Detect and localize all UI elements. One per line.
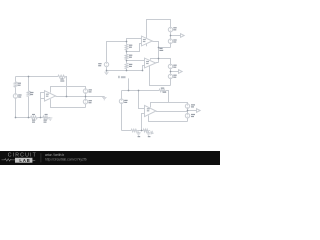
voltage source V2 <box>168 39 172 43</box>
node stack1 mid <box>170 35 172 37</box>
label R9b <box>163 92 167 93</box>
label V4 <box>173 65 176 68</box>
voltage source V10 <box>185 104 189 108</box>
node railC feed <box>138 90 140 92</box>
resistor R10 <box>131 129 137 132</box>
op-amp OA4 <box>145 105 157 116</box>
voltage source V11 <box>185 114 189 118</box>
node railB left <box>15 117 17 119</box>
ground flag (end of rail) <box>48 118 52 121</box>
wire: OA1 output down out node <box>152 42 158 63</box>
label V8 <box>89 100 92 103</box>
node stack2 mid <box>170 71 172 73</box>
ground <box>104 71 108 75</box>
label R9a <box>161 88 164 89</box>
net flag 1 stub <box>128 78 130 90</box>
wire: OA4 inverting feed <box>139 91 145 109</box>
svg-text:artur / keith b: artur / keith b <box>45 153 64 157</box>
label V5 <box>173 75 176 78</box>
wire: V11 bottom to OA4 V- pin <box>149 115 188 121</box>
label R2 <box>129 55 132 58</box>
resistor R7 <box>31 116 38 119</box>
label R8 <box>44 120 47 123</box>
resistor R8 <box>43 116 48 119</box>
wire: tap2 to OA2 inverting input <box>127 60 145 62</box>
node out rail join <box>158 58 160 60</box>
resistor R11 <box>143 129 148 132</box>
net flag arrow (rail end, slanted) <box>149 131 154 134</box>
node tap1 <box>126 51 128 53</box>
wire: feedback drop to output node <box>65 77 66 97</box>
voltage source V6 <box>13 94 17 98</box>
wire: OA2 + input riser <box>143 66 145 71</box>
resistor R3 <box>125 63 128 68</box>
resistor R2 <box>125 54 128 59</box>
label V7 <box>89 89 92 92</box>
wire: tap1 to OA1 + input <box>127 44 142 52</box>
wire: OA3 input column <box>41 93 45 118</box>
voltage source V8 <box>83 100 87 104</box>
wire: OA1 V+ pin up to top rail over to V1 <box>147 20 171 39</box>
node out V2 join <box>158 47 160 49</box>
ground (right of stack3 mid) <box>102 97 106 100</box>
op-amp OA1 <box>142 36 153 46</box>
node railB mid <box>28 117 30 119</box>
resistor R9 <box>159 89 166 92</box>
node stack3 mid <box>85 96 87 98</box>
wire: OA4 + input riser <box>142 114 145 131</box>
wire: OA4 output to stack4 mid <box>156 111 188 113</box>
wire: rail drop to V+ line <box>166 91 169 103</box>
logo LAB box <box>15 158 32 163</box>
separator <box>40 153 42 162</box>
label V9 <box>124 100 127 103</box>
resistor R6 <box>28 77 30 118</box>
wire: V8 bottom to OA3 V- pin <box>51 99 86 107</box>
resistor R4 <box>58 75 65 78</box>
node railB top mid <box>28 76 30 78</box>
node railC flag <box>128 90 130 92</box>
resistor R1 <box>125 42 128 52</box>
ground <box>146 131 150 135</box>
wire: source column C top <box>121 91 123 100</box>
wire: bottom rail left <box>16 117 31 119</box>
node fb out left <box>66 96 68 98</box>
label OA4 <box>147 108 150 111</box>
wire: top rail C <box>122 90 160 92</box>
wire: supply rail to stack2 <box>151 59 171 65</box>
node railC plus <box>141 130 143 132</box>
voltage source V1 <box>168 27 172 31</box>
node railB opamp <box>40 117 42 119</box>
node stack4 mid <box>187 110 189 112</box>
label net out <box>159 48 163 51</box>
voltage source V9 <box>119 99 123 103</box>
label R1 <box>129 45 132 48</box>
logo right stub <box>32 159 35 161</box>
label V2 <box>173 39 176 42</box>
voltage source V7 <box>83 89 87 93</box>
wire: OA2 output join <box>156 62 159 64</box>
node divider top <box>126 41 128 43</box>
label R8 name <box>45 114 48 115</box>
node flag arrow <box>171 71 179 73</box>
label V1 <box>173 27 176 30</box>
node flag arrow <box>188 110 197 112</box>
svg-text:LAB: LAB <box>19 158 30 163</box>
ground <box>136 131 140 135</box>
wire: OA4 V+ pin to stack4 top <box>151 103 188 108</box>
wire: divider ground rail <box>107 70 143 72</box>
node tap2 <box>126 60 128 62</box>
label R7 name <box>32 114 35 115</box>
voltage source V3 <box>104 62 108 66</box>
wire: jog up to OA1 inverting input <box>127 39 142 42</box>
wire: V3 top up and right to divider top <box>107 42 127 63</box>
resistor R5 <box>14 82 17 87</box>
label OA2 <box>146 61 149 64</box>
op-amp OA3 <box>45 91 56 101</box>
label R7 <box>32 120 35 123</box>
node gnd rail left <box>106 70 108 72</box>
label OA3 <box>46 94 49 97</box>
label V6 <box>18 94 21 97</box>
node flag arrow <box>171 35 181 37</box>
wire: OA3 V+ pin to stack3 top <box>51 87 86 93</box>
label V11 <box>191 114 195 117</box>
label V3 <box>98 63 101 66</box>
footer bar <box>0 151 220 165</box>
label R5 <box>18 83 21 86</box>
wire: V2 bottom left to out node <box>159 47 171 49</box>
label V10 <box>191 104 195 107</box>
label R3 <box>129 64 132 67</box>
logo wire glyph <box>2 159 16 161</box>
wire: OA3 output to stack3 mid <box>56 96 105 98</box>
label R6 <box>30 92 33 95</box>
wire: bottom rail C <box>122 130 132 132</box>
op-amp OA2 <box>145 58 156 68</box>
label OA1 <box>143 39 146 42</box>
voltage source V4 <box>168 64 172 68</box>
wire: top rail left <box>16 76 59 78</box>
voltage source V5 <box>168 74 172 78</box>
node OA2 plus riser <box>142 70 144 72</box>
svg-text:http://circuitlab.com/c/7ky2fb: http://circuitlab.com/c/7ky2fb <box>45 158 87 162</box>
node divider bottom <box>126 70 128 72</box>
wire: V5 bottom to OA2 V- pin <box>150 65 171 85</box>
wire: OA1 V- stub <box>146 44 148 46</box>
label R4 <box>60 78 64 81</box>
